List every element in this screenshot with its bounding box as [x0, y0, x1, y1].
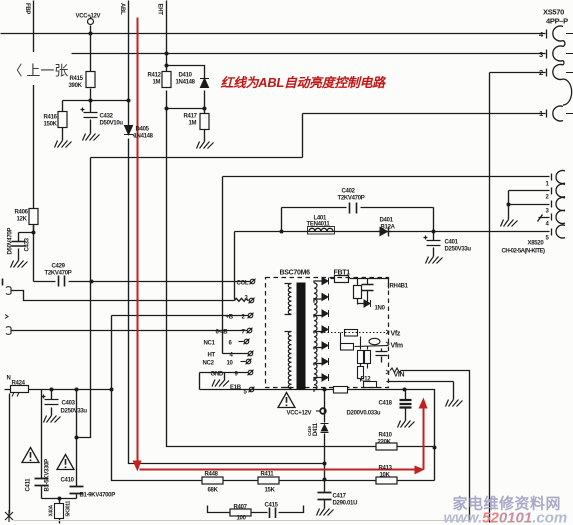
svg-text:RH4B1: RH4B1	[390, 284, 409, 290]
svg-text:100: 100	[237, 516, 247, 522]
svg-text:NC2: NC2	[203, 361, 215, 367]
svg-text:C432: C432	[100, 114, 114, 120]
svg-text:220K: 220K	[378, 440, 392, 446]
svg-text:C402: C402	[342, 189, 356, 195]
svg-text:15K: 15K	[265, 488, 276, 494]
svg-text:R412: R412	[148, 73, 162, 79]
svg-text:150K: 150K	[44, 122, 58, 128]
svg-text:1N4148: 1N4148	[176, 80, 196, 86]
svg-text:C429: C429	[52, 264, 66, 270]
svg-text:B1-9KV4700P: B1-9KV4700P	[80, 493, 116, 499]
svg-text:4: 4	[546, 222, 550, 228]
svg-text:B12A: B12A	[381, 225, 396, 231]
svg-text:VCC+12V: VCC+12V	[76, 14, 101, 20]
svg-text:VIN: VIN	[394, 372, 405, 379]
svg-text:BSC70M6: BSC70M6	[280, 270, 311, 277]
svg-text:〈 上一张: 〈 上一张	[9, 63, 69, 79]
svg-text:+B: +B	[226, 315, 234, 321]
svg-text:NC1: NC1	[204, 341, 216, 347]
svg-text:4: 4	[539, 30, 544, 39]
svg-text:4PP–P: 4PP–P	[546, 17, 568, 26]
svg-text:www.520101.com: www.520101.com	[444, 510, 568, 525]
svg-text:R415: R415	[70, 76, 84, 82]
svg-text:TEN4011: TEN4011	[307, 222, 331, 228]
svg-text:2: 2	[546, 195, 550, 201]
svg-text:C418: C418	[379, 401, 393, 407]
svg-text:EHT: EHT	[157, 4, 163, 16]
svg-text:3: 3	[539, 50, 543, 59]
svg-text:C417: C417	[333, 494, 347, 500]
svg-text:1N4148: 1N4148	[134, 134, 154, 140]
svg-text:D401: D401	[380, 218, 394, 224]
svg-text:D50V10u: D50V10u	[100, 121, 124, 127]
svg-text:R406: R406	[15, 210, 29, 216]
svg-text:XS570: XS570	[543, 8, 564, 17]
svg-text:D200V0.033u: D200V0.033u	[347, 411, 381, 417]
svg-text:D50V470P: D50V470P	[8, 228, 14, 255]
svg-text:红线为ABL自动亮度控制电路: 红线为ABL自动亮度控制电路	[221, 75, 388, 90]
svg-text:R417: R417	[184, 114, 198, 120]
svg-text:Vfz: Vfz	[391, 331, 401, 338]
svg-text:2: 2	[539, 68, 543, 77]
svg-text:D250V33u: D250V33u	[445, 247, 472, 253]
svg-text:3: 3	[546, 209, 550, 215]
svg-text:VCC+12V: VCC+12V	[287, 411, 312, 417]
svg-text:D411: D411	[313, 422, 319, 436]
svg-text:C433: C433	[25, 237, 31, 251]
svg-text:N: N	[7, 376, 11, 382]
svg-text:R407: R407	[234, 505, 248, 511]
svg-text:C411: C411	[26, 478, 32, 492]
svg-text:ABL: ABL	[119, 3, 125, 15]
svg-text:1M: 1M	[153, 80, 161, 86]
svg-text:10K: 10K	[380, 473, 391, 479]
svg-text:C416: C416	[307, 426, 312, 436]
svg-text:5: 5	[546, 236, 550, 242]
svg-text:FBT1: FBT1	[334, 270, 351, 277]
svg-text:1: 1	[546, 182, 550, 188]
svg-text:X40A: X40A	[49, 505, 55, 517]
svg-text:T2KV470P: T2KV470P	[45, 271, 72, 277]
svg-text:1N0: 1N0	[375, 306, 386, 312]
svg-text:D250V33u: D250V33u	[61, 409, 88, 415]
svg-text:6: 6	[229, 341, 233, 347]
svg-text:GND: GND	[211, 372, 224, 378]
svg-text:R410: R410	[379, 433, 393, 439]
svg-text:E12: E12	[361, 377, 372, 383]
svg-text:390K: 390K	[69, 83, 83, 89]
svg-text:6-4B: 6-4B	[216, 330, 229, 336]
svg-text:COL: COL	[237, 281, 249, 287]
svg-text:12K: 12K	[17, 217, 28, 223]
svg-text:C410: C410	[61, 478, 75, 484]
svg-text:HT: HT	[208, 353, 216, 359]
svg-text:C403: C403	[62, 401, 76, 407]
svg-text:B1-5KV330P: B1-5KV330P	[45, 459, 51, 492]
svg-text:1M: 1M	[189, 121, 197, 127]
svg-text:FBP: FBP	[24, 3, 30, 14]
svg-text:D410: D410	[179, 73, 193, 79]
svg-text:R416: R416	[44, 115, 58, 121]
svg-text:T2KV470P: T2KV470P	[338, 196, 365, 202]
svg-text:68K: 68K	[208, 488, 219, 494]
svg-text:5: 5	[244, 390, 248, 396]
svg-text:5K3011: 5K3011	[66, 501, 72, 517]
svg-text:10: 10	[227, 361, 234, 367]
svg-text:1: 1	[539, 109, 543, 118]
svg-text:R411: R411	[261, 472, 275, 478]
svg-text:CH-02-5A(N-KITE): CH-02-5A(N-KITE)	[502, 249, 546, 255]
svg-text:Vfm: Vfm	[391, 343, 403, 350]
svg-text:E1B: E1B	[230, 385, 242, 391]
svg-text:X8520: X8520	[528, 241, 545, 247]
svg-text:D290.01U: D290.01U	[333, 501, 358, 507]
svg-text:D405: D405	[136, 127, 150, 133]
svg-text:C401: C401	[445, 240, 459, 246]
svg-text:R448: R448	[205, 472, 219, 478]
svg-text:R413: R413	[379, 466, 393, 472]
svg-text:R424: R424	[12, 381, 26, 387]
svg-text:C415: C415	[265, 503, 279, 509]
